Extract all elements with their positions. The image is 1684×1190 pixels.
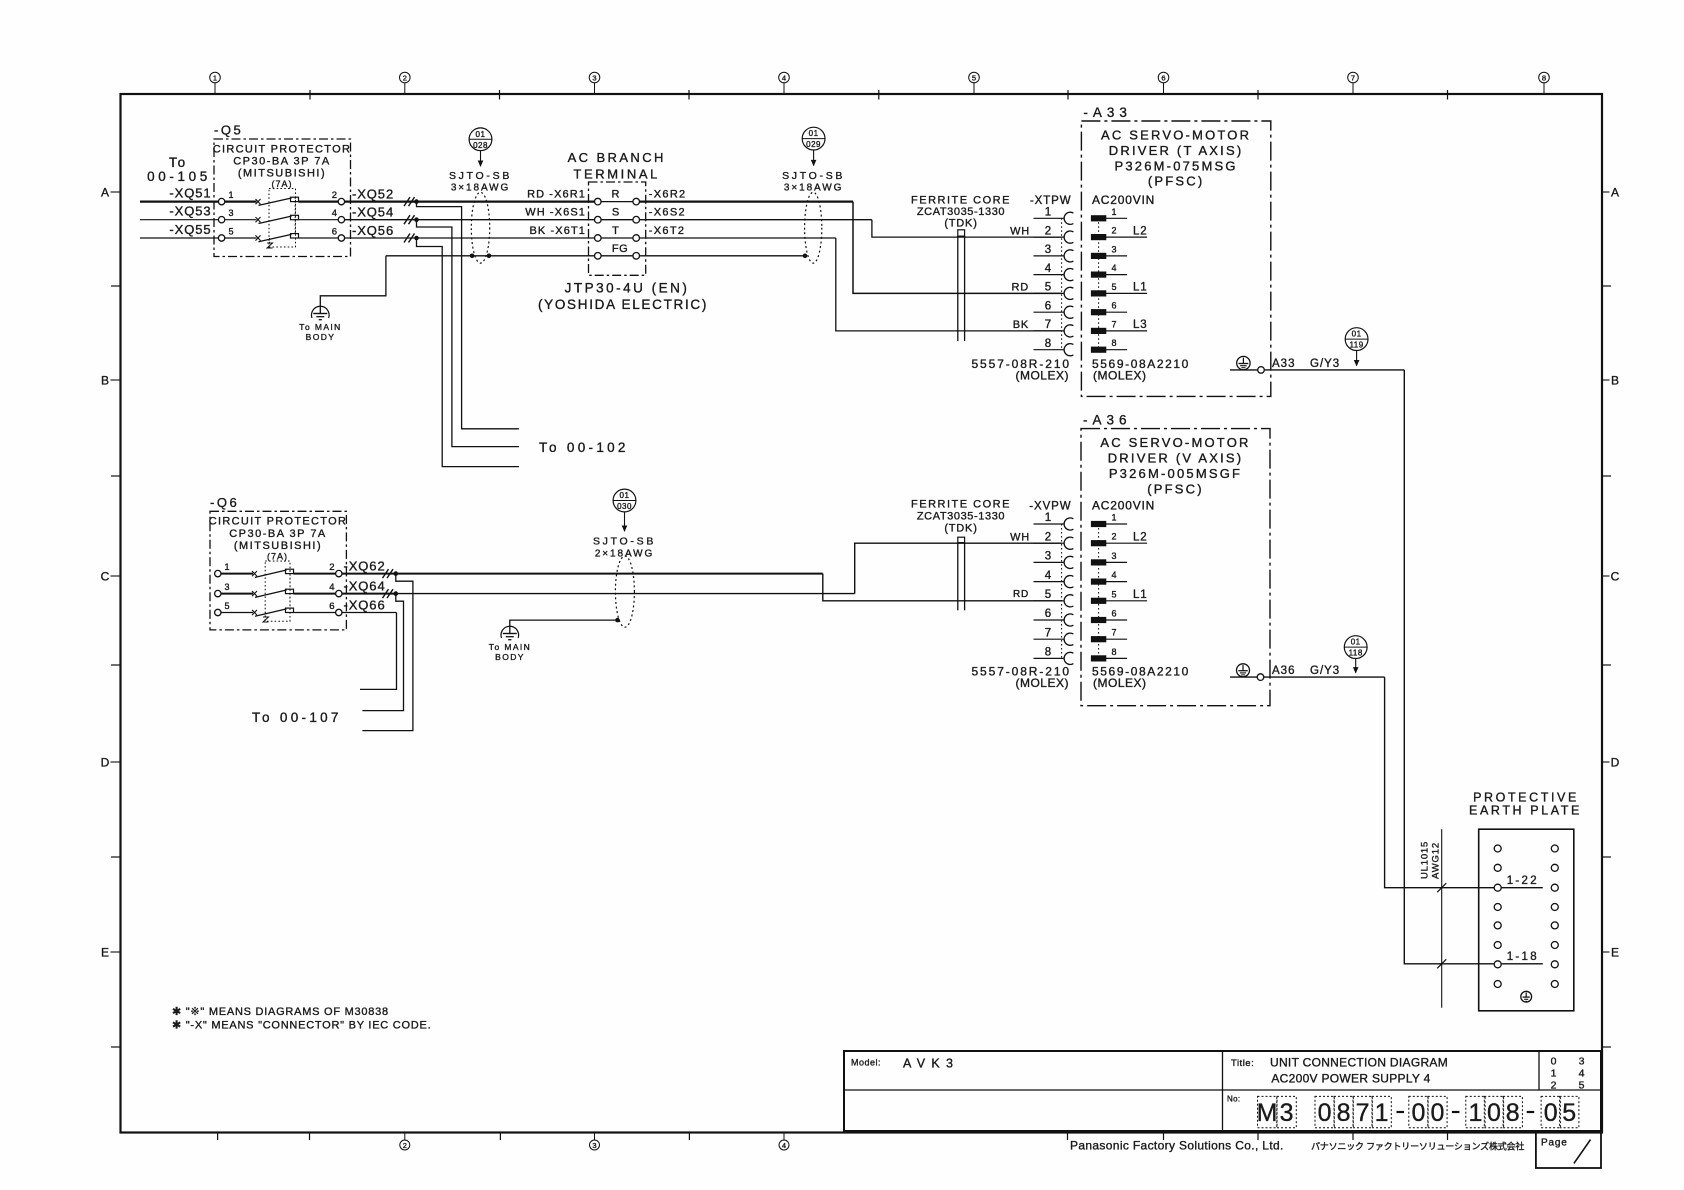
svg-text:8: 8	[1337, 1099, 1351, 1127]
earth plate hole row 2	[1494, 864, 1558, 871]
svg-text:2: 2	[403, 74, 407, 83]
-XVPW pin 5 socket	[1034, 589, 1074, 607]
label WH	[1010, 531, 1030, 543]
svg-text:SJTO-SB: SJTO-SB	[782, 170, 845, 182]
svg-text:G/Y3: G/Y3	[1310, 665, 1340, 677]
svg-text:5: 5	[1562, 1099, 1576, 1127]
svg-text:BK -X6T1: BK -X6T1	[530, 225, 587, 237]
svg-text:4: 4	[1112, 570, 1117, 580]
svg-text:7: 7	[1045, 627, 1051, 639]
-XVPW pin 1 socket	[1034, 512, 1074, 530]
svg-text:L2: L2	[1133, 225, 1147, 237]
cable SJTO-SB 2x18AWG	[593, 536, 656, 628]
svg-text:ZCAT3035-1330: ZCAT3035-1330	[917, 206, 1005, 218]
wire branch XQ52 to 00-102	[417, 202, 519, 429]
svg-text:R: R	[612, 189, 620, 201]
svg-text:-A33: -A33	[1083, 105, 1132, 120]
wire XQ64 to XVPW pin2	[398, 543, 1062, 593]
svg-text:C: C	[1611, 569, 1620, 583]
svg-text:L2: L2	[1133, 531, 1147, 543]
svg-text:E: E	[101, 945, 109, 959]
wire branch XQ64 to 00-107	[362, 594, 403, 711]
svg-text:-XQ52: -XQ52	[352, 186, 394, 201]
header 5569-08A2210 (MOLEX)	[1092, 357, 1190, 383]
terminal FG	[595, 243, 640, 259]
svg-text:1: 1	[1045, 207, 1051, 219]
wire feed -XQ53	[140, 204, 218, 220]
svg-text:118: 118	[1349, 649, 1363, 658]
svg-text:-X6S2: -X6S2	[649, 207, 686, 219]
svg-text:2: 2	[1045, 531, 1051, 543]
node To 00-105	[147, 155, 211, 184]
Q5 pole contact pins 1-2	[218, 190, 344, 205]
svg-text:5: 5	[1579, 1080, 1585, 1092]
svg-text:RD: RD	[1013, 589, 1029, 600]
wire FG to main body ground	[320, 256, 594, 314]
svg-text:1: 1	[1375, 1099, 1389, 1127]
net label A33 G/Y3	[1272, 358, 1340, 370]
svg-text:-A36: -A36	[1083, 413, 1132, 428]
svg-text:1: 1	[213, 74, 217, 83]
svg-text:B: B	[101, 373, 109, 387]
A33 protective earth terminal	[1237, 356, 1250, 369]
-XTPW pin 7 socket	[1034, 319, 1074, 337]
svg-text:A33: A33	[1272, 358, 1295, 370]
driver A33 pin 7 L3	[1091, 319, 1147, 333]
driver A33 pin 2 L2	[1091, 225, 1147, 239]
housing 5557-08R-210 (MOLEX)	[971, 664, 1071, 690]
svg-text:AC SERVO-MOTOR: AC SERVO-MOTOR	[1100, 435, 1250, 450]
wire -XQ62	[342, 558, 396, 578]
svg-text:SJTO-SB: SJTO-SB	[449, 170, 512, 182]
Q6 linkage	[263, 570, 290, 622]
junction -XQ52	[414, 199, 419, 204]
driver A33 pin 8	[1091, 338, 1127, 352]
svg-text:AC200VIN: AC200VIN	[1092, 499, 1155, 513]
ground To MAIN BODY (Q5)	[299, 306, 341, 342]
svg-text:AVK3: AVK3	[903, 1057, 959, 1071]
svg-text:4: 4	[782, 1141, 786, 1150]
svg-text:6: 6	[332, 227, 337, 238]
svg-text:0: 0	[1411, 1099, 1425, 1127]
driver A36 pin 3	[1091, 551, 1127, 565]
svg-text:CIRCUIT PROTECTOR: CIRCUIT PROTECTOR	[209, 516, 347, 528]
junction -XQ64	[394, 591, 399, 596]
terminal 1-18	[1501, 951, 1543, 964]
circuit protector Q5	[213, 123, 351, 257]
svg-text:7: 7	[1112, 319, 1117, 329]
svg-text:0: 0	[1318, 1099, 1332, 1127]
svg-text:(YOSHIDA ELECTRIC): (YOSHIDA ELECTRIC)	[538, 297, 708, 312]
svg-text:3: 3	[1280, 1099, 1294, 1127]
svg-text:3×18AWG: 3×18AWG	[784, 183, 843, 194]
driver A36 pin 7	[1091, 628, 1127, 642]
earth plate hole row 4	[1494, 904, 1558, 911]
earth plate hole row 8	[1494, 981, 1558, 988]
svg-text:028: 028	[473, 141, 488, 150]
svg-text:Page: Page	[1541, 1138, 1568, 1149]
svg-text:8: 8	[1112, 647, 1117, 657]
svg-text:3: 3	[229, 208, 234, 218]
earth plate hole row 7	[1494, 961, 1558, 968]
title block	[844, 1051, 1601, 1131]
svg-text:1: 1	[1112, 513, 1117, 523]
AC branch terminal JTP30-4U	[538, 150, 708, 312]
driver A36	[1081, 413, 1270, 706]
company name	[1070, 1139, 1524, 1153]
net label A36 G/Y3	[1272, 665, 1340, 677]
svg-text:7: 7	[1351, 74, 1355, 83]
svg-text:6: 6	[1045, 300, 1051, 312]
wire S phase to XTPW pin2	[640, 220, 1062, 237]
driver A36 pin 1	[1091, 513, 1127, 527]
svg-text:Model:: Model:	[851, 1058, 881, 1068]
wire branch XQ62 to 00-107	[362, 574, 413, 731]
svg-text:AWG12: AWG12	[1431, 842, 1442, 879]
svg-text:(TDK): (TDK)	[944, 218, 977, 230]
driver A36 pin 6	[1091, 609, 1127, 623]
Q6 pole contact pins 1-2	[215, 562, 342, 577]
svg-text:6: 6	[1161, 74, 1165, 83]
svg-text:4: 4	[1045, 570, 1052, 582]
callout 01/118	[1344, 636, 1367, 674]
Q6 pole contact pins 5-6	[215, 601, 342, 616]
svg-text:3: 3	[1112, 551, 1117, 561]
svg-text:6: 6	[1045, 608, 1051, 620]
-XTPW pin 6 socket	[1034, 300, 1074, 318]
svg-text:2: 2	[1112, 532, 1117, 542]
svg-text:A36: A36	[1272, 665, 1295, 677]
svg-text:(MOLEX): (MOLEX)	[1093, 676, 1147, 690]
svg-text:-XVPW: -XVPW	[1029, 501, 1071, 513]
svg-text:CIRCUIT PROTECTOR: CIRCUIT PROTECTOR	[213, 144, 351, 156]
svg-text:2: 2	[332, 190, 337, 201]
svg-text:EARTH PLATE: EARTH PLATE	[1469, 804, 1582, 818]
svg-text:WH -X6S1: WH -X6S1	[525, 207, 586, 219]
svg-text:3: 3	[592, 1141, 596, 1150]
svg-text:3: 3	[1579, 1056, 1585, 1068]
svg-text:1-22: 1-22	[1507, 875, 1539, 887]
callout 01/119	[1345, 328, 1368, 367]
svg-text:(MOLEX): (MOLEX)	[1093, 369, 1147, 383]
driver A33	[1081, 105, 1270, 396]
svg-text:2: 2	[1551, 1080, 1557, 1092]
svg-text:PROTECTIVE: PROTECTIVE	[1473, 791, 1579, 805]
svg-text:L1: L1	[1133, 282, 1147, 294]
ferrite core ZCAT3035-1330 (T axis)	[911, 194, 1011, 341]
svg-text:4: 4	[1045, 263, 1052, 275]
svg-text:6: 6	[329, 601, 334, 612]
wire T phase to XTPW pin7	[640, 238, 1062, 331]
svg-text:1-18: 1-18	[1507, 951, 1539, 963]
svg-text:No:: No:	[1227, 1095, 1240, 1104]
wire branch XQ56 to 00-102	[417, 238, 519, 467]
svg-text:8: 8	[1112, 338, 1117, 348]
Q5 switch blade pole 3	[225, 215, 338, 223]
terminal R	[527, 189, 686, 205]
wire -XQ56	[345, 223, 417, 243]
drawing number M3 0871-00-108-05	[1227, 1095, 1579, 1128]
wire XQ62 to XVPW pin5	[398, 574, 1062, 601]
model field	[851, 1057, 959, 1071]
driver A33 pin 1	[1091, 207, 1127, 221]
node To 00-107	[252, 710, 342, 725]
node To 00-102	[539, 440, 629, 455]
-XTPW pin 3 socket	[1034, 244, 1074, 262]
-XTPW pin 5 socket	[1034, 282, 1074, 300]
svg-text:RD: RD	[1012, 282, 1030, 294]
svg-text:8: 8	[1506, 1099, 1520, 1127]
svg-text:-X6T2: -X6T2	[649, 225, 685, 237]
driver A33 pin column	[1098, 218, 1100, 349]
svg-text:UL1015: UL1015	[1420, 841, 1431, 879]
svg-text:3: 3	[1045, 551, 1051, 563]
wire	[419, 201, 595, 203]
earth plate ground terminal	[1521, 991, 1532, 1002]
svg-text:6: 6	[1112, 301, 1117, 311]
svg-text:5: 5	[972, 74, 976, 83]
wire -XQ52	[345, 186, 417, 206]
svg-text:A: A	[1611, 185, 1619, 199]
junction -XQ62	[394, 571, 399, 576]
-XTPW pin 2 socket	[1034, 225, 1074, 243]
svg-text:C: C	[101, 569, 110, 583]
svg-text:1: 1	[229, 190, 234, 200]
svg-text:4: 4	[332, 208, 337, 219]
junction -XQ56	[414, 236, 419, 241]
svg-text:4: 4	[1112, 263, 1117, 273]
terminal S	[525, 207, 686, 223]
svg-text:4: 4	[1579, 1068, 1585, 1080]
svg-text:To: To	[169, 155, 187, 170]
wire A36 G/Y3 earth	[1230, 674, 1494, 888]
svg-text:✱ "※" MEANS DIAGRAMS OF M30838: ✱ "※" MEANS DIAGRAMS OF M30838	[172, 1006, 389, 1018]
Q5 pole contact pins 5-6	[218, 227, 344, 242]
shield connection dots	[470, 254, 491, 259]
svg-text:BK: BK	[1013, 319, 1029, 331]
Q6 switch blade pole 1	[221, 569, 336, 577]
svg-text:WH: WH	[1010, 225, 1030, 237]
driver A36 pin 8	[1091, 647, 1127, 661]
label RD	[1013, 589, 1029, 600]
junction -XQ54	[414, 217, 419, 222]
svg-text:AC200V POWER SUPPLY 4: AC200V POWER SUPPLY 4	[1271, 1072, 1430, 1086]
svg-text:DRIVER (V AXIS): DRIVER (V AXIS)	[1108, 451, 1244, 466]
-XTPW pin 4 socket	[1034, 263, 1074, 281]
svg-text:119: 119	[1349, 341, 1363, 350]
svg-text:029: 029	[806, 140, 821, 149]
wire branch XQ66 to 00-107	[360, 613, 397, 690]
svg-text:0: 0	[1430, 1099, 1444, 1127]
svg-text:RD -X6R1: RD -X6R1	[527, 189, 586, 201]
revision grid	[1551, 1056, 1585, 1092]
svg-text:01: 01	[620, 491, 630, 500]
svg-text:5: 5	[1045, 589, 1051, 601]
note 2	[172, 1020, 431, 1032]
svg-text:2: 2	[1112, 226, 1117, 236]
svg-text:P326M-005MSGF: P326M-005MSGF	[1109, 466, 1242, 481]
wire	[419, 219, 595, 221]
svg-text:BODY: BODY	[495, 652, 525, 662]
housing 5557-08R-210 (MOLEX)	[971, 357, 1071, 383]
svg-text:01: 01	[1352, 330, 1362, 339]
svg-text:3: 3	[1045, 244, 1051, 256]
svg-text:01: 01	[476, 130, 486, 139]
-XVPW pin 7 socket	[1034, 627, 1074, 645]
svg-text:-XQ64: -XQ64	[344, 578, 386, 593]
svg-text:(7A): (7A)	[267, 552, 288, 562]
svg-text:B: B	[1611, 373, 1619, 387]
svg-text:CP30-BA 3P 7A: CP30-BA 3P 7A	[229, 528, 327, 540]
svg-text:T: T	[612, 225, 619, 237]
Q5 switch blade pole 5	[225, 234, 338, 242]
svg-text:To 00-107: To 00-107	[252, 710, 342, 725]
svg-text:FERRITE CORE: FERRITE CORE	[911, 499, 1011, 511]
svg-text:(PFSC): (PFSC)	[1147, 481, 1204, 496]
callout 01/030	[613, 489, 636, 532]
wire branch XQ54 to 00-102	[417, 220, 519, 447]
svg-text:1: 1	[1468, 1099, 1482, 1127]
svg-text:CP30-BA 3P 7A: CP30-BA 3P 7A	[233, 156, 331, 168]
svg-text:L3: L3	[1133, 319, 1147, 331]
svg-text:01: 01	[1351, 638, 1361, 647]
cable SJTO-SB 3x18AWG (A33 side)	[782, 170, 845, 263]
svg-text:(7A): (7A)	[271, 179, 292, 189]
svg-text:WH: WH	[1010, 531, 1030, 543]
Q6 switch blade pole 3	[221, 589, 336, 597]
driver A33 pin 3	[1091, 244, 1127, 258]
-XVPW pin 6 socket	[1034, 608, 1074, 626]
svg-text:パナソニック ファクトリーソリューションズ株式会社: パナソニック ファクトリーソリューションズ株式会社	[1311, 1141, 1524, 1152]
A36 protective earth terminal	[1237, 664, 1250, 677]
svg-text:Panasonic Factory Solutions Co: Panasonic Factory Solutions Co., Ltd.	[1070, 1139, 1284, 1153]
Q5 pole contact pins 3-4	[218, 208, 344, 223]
ferrite core ZCAT3035-1330 (V axis)	[911, 499, 1011, 611]
svg-text:2: 2	[403, 1141, 407, 1150]
svg-text:E: E	[1611, 945, 1619, 959]
svg-text:(MITSUBISHI): (MITSUBISHI)	[234, 540, 322, 552]
svg-text:00-105: 00-105	[147, 169, 211, 184]
svg-text:0: 0	[1487, 1099, 1501, 1127]
svg-text:-XQ53: -XQ53	[169, 204, 211, 219]
svg-text:6: 6	[1112, 609, 1117, 619]
svg-text:P326M-075MSG: P326M-075MSG	[1114, 158, 1237, 173]
callout 01/029	[802, 127, 825, 166]
svg-text:D: D	[101, 755, 110, 769]
svg-text:D: D	[1611, 755, 1620, 769]
svg-text:3: 3	[225, 582, 230, 592]
Q5 switch blade pole 1	[225, 197, 338, 205]
svg-text:1: 1	[225, 562, 230, 572]
svg-text:FERRITE CORE: FERRITE CORE	[911, 194, 1011, 206]
svg-text:To MAIN: To MAIN	[299, 322, 341, 332]
svg-text:✱ "-X" MEANS "CONNECTOR" BY IE: ✱ "-X" MEANS "CONNECTOR" BY IEC CODE.	[172, 1020, 431, 1032]
svg-text:3×18AWG: 3×18AWG	[451, 183, 510, 194]
svg-text:0: 0	[1551, 1056, 1557, 1068]
svg-text:L1: L1	[1133, 589, 1147, 601]
svg-text:5: 5	[1112, 282, 1117, 292]
svg-text:7: 7	[1045, 319, 1051, 331]
svg-text:SJTO-SB: SJTO-SB	[593, 536, 656, 548]
svg-text:(MOLEX): (MOLEX)	[1015, 369, 1069, 383]
wire FG to cable shield	[640, 254, 808, 259]
protective earth plate	[1469, 791, 1582, 1011]
svg-text:DRIVER (T AXIS): DRIVER (T AXIS)	[1109, 143, 1244, 158]
Q5 rating (7A)	[269, 179, 296, 247]
wire -XQ54	[345, 205, 417, 225]
svg-text:2: 2	[1045, 225, 1051, 237]
svg-text:S: S	[612, 207, 619, 219]
svg-text:(MOLEX): (MOLEX)	[1015, 676, 1069, 690]
connector -XTPW	[1030, 195, 1072, 350]
svg-text:-XTPW: -XTPW	[1030, 195, 1072, 207]
driver A36 pin 5 L1	[1091, 589, 1147, 603]
svg-text:-XQ54: -XQ54	[352, 205, 394, 220]
driver A33 pin 5 L1	[1091, 282, 1147, 296]
driver A36 pin 2 L2	[1091, 531, 1147, 545]
svg-text:-XQ51: -XQ51	[169, 186, 211, 201]
svg-text:TERMINAL: TERMINAL	[573, 167, 660, 182]
circuit protector Q6	[209, 495, 347, 630]
earth plate hole row 1	[1494, 845, 1558, 852]
svg-text:-XQ62: -XQ62	[344, 558, 386, 573]
svg-text:-Q6: -Q6	[210, 495, 239, 510]
svg-text:AC BRANCH: AC BRANCH	[568, 150, 666, 165]
svg-text:A: A	[101, 185, 109, 199]
svg-text:8: 8	[1045, 647, 1051, 659]
driver A33 pin 4	[1091, 263, 1127, 277]
Q6 switch blade pole 5	[221, 608, 336, 616]
earth plate hole row 6	[1494, 942, 1558, 949]
svg-text:FG: FG	[612, 243, 628, 255]
-XTPW pin 8 socket	[1034, 338, 1074, 356]
wire feed -XQ51	[140, 186, 218, 202]
wire type UL1015 AWG12 leader	[1420, 829, 1447, 1008]
wire -XQ66	[342, 597, 397, 612]
title field	[1231, 1056, 1448, 1086]
driver A36 pin column	[1098, 524, 1100, 658]
ground To MAIN BODY (Q6)	[489, 626, 531, 662]
-XVPW pin 4 socket	[1034, 570, 1074, 588]
header 5569-08A2210 (MOLEX)	[1092, 664, 1190, 690]
-XVPW pin 2 socket	[1034, 531, 1074, 549]
svg-text:2×18AWG: 2×18AWG	[595, 549, 654, 560]
terminal 1-22	[1501, 875, 1543, 888]
cable SJTO-SB 3x18AWG (Q5 side)	[449, 170, 512, 263]
svg-text:ZCAT3035-1330: ZCAT3035-1330	[917, 510, 1005, 522]
svg-text:8: 8	[1045, 338, 1051, 350]
svg-text:G/Y3: G/Y3	[1310, 358, 1340, 370]
svg-text:5: 5	[225, 601, 230, 611]
svg-text:(TDK): (TDK)	[944, 523, 977, 535]
terminal T	[530, 225, 686, 241]
callout 01/028	[469, 128, 492, 167]
wire	[419, 237, 595, 239]
label BK	[1013, 319, 1029, 331]
svg-text:0: 0	[1544, 1099, 1558, 1127]
svg-text:7: 7	[1112, 628, 1117, 638]
driver A33 pin 6	[1091, 301, 1127, 315]
svg-text:5: 5	[1045, 282, 1051, 294]
svg-text:4: 4	[329, 582, 334, 593]
wire shield to main body ground	[510, 618, 620, 634]
label WH	[1010, 225, 1030, 237]
earth plate hole row 5	[1494, 922, 1558, 929]
svg-text:030: 030	[617, 502, 632, 511]
svg-text:UNIT CONNECTION DIAGRAM: UNIT CONNECTION DIAGRAM	[1270, 1056, 1448, 1070]
svg-text:5: 5	[1112, 589, 1117, 599]
svg-text:7: 7	[1356, 1099, 1370, 1127]
